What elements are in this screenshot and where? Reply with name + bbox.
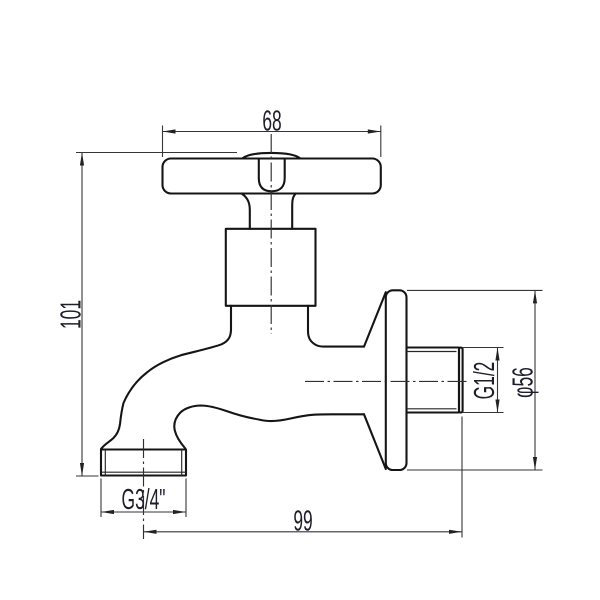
99 dim left arrowhead [144, 530, 157, 534]
cone slant top [364, 292, 386, 346]
101 dim top arrowhead [80, 153, 84, 166]
G3/4 dim left extension line [100, 479, 102, 518]
phi56 dim bottom arrowhead [533, 457, 537, 470]
svg-text:φ56: φ56 [507, 367, 540, 398]
spout under-curve from nut to tube bottom [174, 406, 364, 449]
svg-text:99: 99 [293, 505, 312, 538]
G3/4 dim left arrowhead [101, 510, 114, 514]
99 dimension line [144, 531, 463, 533]
outlet centerline [143, 439, 145, 539]
thread end chamfer [459, 348, 463, 413]
101 dim top extension line [76, 152, 237, 154]
G3/4 dim right extension line [185, 479, 187, 518]
101 dim bottom extension line [76, 475, 99, 477]
body right shoulder to tube top [308, 306, 364, 347]
99 dim right arrowhead [449, 530, 462, 534]
68 dim right arrowhead [368, 129, 381, 133]
68 dim left extension line [162, 126, 164, 158]
thread G1/2 outline [407, 348, 460, 413]
right horizontal centerline [305, 380, 470, 382]
cone slant bottom [364, 414, 386, 469]
handle bar [163, 159, 381, 194]
G3/4 dim right arrowhead [173, 510, 186, 514]
phi56 dimension line [534, 290, 536, 470]
bonnet [226, 229, 316, 306]
svg-text:101: 101 [55, 300, 88, 329]
68 dimension line [163, 131, 381, 133]
phi56 dim top arrowhead [533, 290, 537, 303]
99 dim right extension line [461, 417, 463, 538]
neck right [292, 194, 296, 229]
G1/2 dim top extension line [463, 347, 504, 349]
nut thread relief right [181, 450, 183, 476]
screw shaft with U bottom [259, 159, 285, 192]
neck left [242, 194, 250, 229]
svg-text:68: 68 [262, 105, 281, 138]
G1/2 dim bottom arrowhead [495, 400, 499, 413]
svg-text:G1/2: G1/2 [468, 362, 501, 400]
101 dimension line [81, 153, 83, 477]
68 dim left arrowhead [163, 129, 176, 133]
nut thread relief left [104, 450, 106, 476]
outlet nut [101, 450, 186, 476]
phi56 dim top extension line [407, 289, 543, 291]
main vertical centerline [270, 134, 272, 334]
G1/2 dimension line [497, 348, 499, 413]
body left side + spout upper-left curve [101, 306, 231, 449]
cap dome [243, 153, 301, 158]
G1/2 thread relief top [407, 351, 457, 353]
G3/4 dimension line [101, 511, 186, 513]
G1/2 thread relief bottom [407, 408, 457, 410]
G1/2 dim top arrowhead [495, 348, 499, 361]
68 dim right extension line [380, 126, 382, 158]
G1/2 dim bottom extension line [463, 412, 504, 414]
101 dim bottom arrowhead [80, 463, 84, 476]
svg-text:G3/4": G3/4" [122, 484, 166, 517]
wall flange [386, 290, 407, 470]
nut thread relief bottom [101, 471, 186, 473]
phi56 dim bottom extension line [407, 469, 543, 471]
